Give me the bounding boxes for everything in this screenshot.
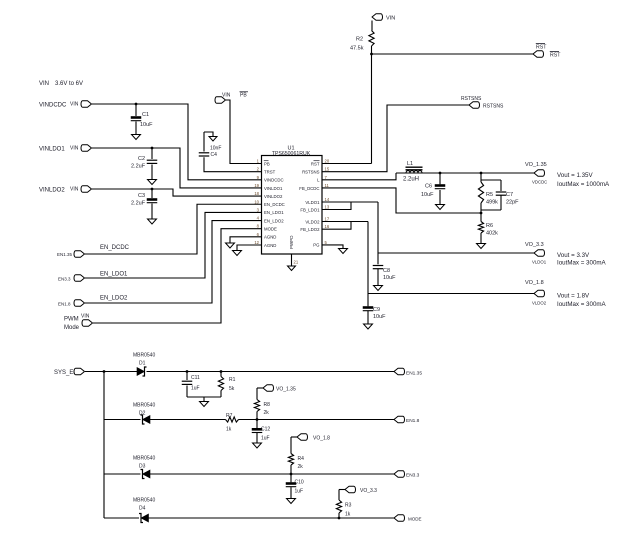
svg-text:R1: R1 <box>229 377 236 383</box>
svg-text:RST: RST <box>311 161 320 166</box>
svg-text:TPS650061RUK: TPS650061RUK <box>272 151 311 157</box>
svg-text:IoutMax = 1000mA: IoutMax = 1000mA <box>557 181 610 188</box>
svg-text:R5: R5 <box>486 192 493 198</box>
svg-text:13: 13 <box>325 205 330 210</box>
svg-text:EN1.8: EN1.8 <box>406 418 420 424</box>
svg-text:R7: R7 <box>226 413 233 419</box>
svg-text:Mode: Mode <box>64 325 80 331</box>
svg-text:VLDO1: VLDO1 <box>305 200 320 205</box>
svg-text:2k: 2k <box>264 410 270 416</box>
svg-text:499k: 499k <box>486 200 498 206</box>
svg-text:D1: D1 <box>139 361 146 367</box>
svg-text:VIN: VIN <box>70 146 79 152</box>
svg-text:EN3.3: EN3.3 <box>58 277 71 282</box>
svg-text:AGND: AGND <box>264 243 276 248</box>
svg-text:RST: RST <box>550 53 561 59</box>
svg-text:VO_1.35: VO_1.35 <box>525 162 547 168</box>
svg-text:R3: R3 <box>345 503 352 509</box>
svg-text:10uF: 10uF <box>421 192 434 198</box>
svg-text:R6: R6 <box>486 223 493 229</box>
svg-text:C11: C11 <box>191 375 200 381</box>
svg-text:11: 11 <box>325 183 330 188</box>
svg-text:2.2uF: 2.2uF <box>131 164 146 170</box>
svg-text:Vout = 1.8V: Vout = 1.8V <box>557 293 590 300</box>
svg-text:2.2uF: 2.2uF <box>131 201 146 207</box>
svg-text:D3: D3 <box>139 464 146 470</box>
svg-text:VIN: VIN <box>70 187 79 193</box>
svg-text:VIN: VIN <box>386 16 395 22</box>
svg-text:47.5k: 47.5k <box>350 46 364 52</box>
svg-text:1k: 1k <box>345 512 351 518</box>
svg-text:VINLDO1: VINLDO1 <box>39 147 65 153</box>
svg-text:EN_DCDC: EN_DCDC <box>100 245 130 251</box>
svg-text:VO_1.8: VO_1.8 <box>313 436 330 442</box>
svg-text:VLDO1: VLDO1 <box>532 260 547 265</box>
svg-text:VO_1.35: VO_1.35 <box>276 387 296 393</box>
svg-text:PWM: PWM <box>64 317 79 323</box>
svg-text:MBR0540: MBR0540 <box>133 456 155 462</box>
svg-text:Vout = 1.35V: Vout = 1.35V <box>557 172 593 179</box>
svg-text:VO_1.8: VO_1.8 <box>525 280 544 286</box>
svg-text:VLDO2: VLDO2 <box>532 301 547 306</box>
svg-text:L1: L1 <box>407 161 413 167</box>
svg-text:Vout = 3.3V: Vout = 3.3V <box>557 252 590 259</box>
svg-text:1k: 1k <box>226 427 232 433</box>
svg-text:RSTSNS: RSTSNS <box>302 169 320 174</box>
svg-text:VINLDO2: VINLDO2 <box>39 188 65 194</box>
svg-text:C6: C6 <box>425 184 432 190</box>
svg-text:VIN: VIN <box>39 81 49 87</box>
svg-text:EN1.35: EN1.35 <box>406 371 422 377</box>
svg-text:EN_LDO1: EN_LDO1 <box>100 272 128 278</box>
svg-text:10nF: 10nF <box>210 146 221 152</box>
svg-text:MBR0540: MBR0540 <box>133 353 155 359</box>
svg-text:RST: RST <box>536 45 547 51</box>
svg-text:VDCDC: VDCDC <box>532 180 547 185</box>
svg-text:20: 20 <box>325 159 330 164</box>
svg-text:C4: C4 <box>211 152 218 158</box>
svg-text:VINLDO1: VINLDO1 <box>264 186 283 191</box>
svg-text:RSTSNS: RSTSNS <box>483 104 504 110</box>
svg-text:1uF: 1uF <box>261 436 270 442</box>
svg-text:MODE: MODE <box>408 517 422 522</box>
svg-text:MBR0540: MBR0540 <box>133 403 155 409</box>
svg-text:PWPD: PWPD <box>289 235 294 249</box>
svg-text:C2: C2 <box>138 156 145 162</box>
svg-text:10: 10 <box>254 199 259 204</box>
svg-text:PB: PB <box>264 161 270 166</box>
svg-text:RSTSNS: RSTSNS <box>461 96 482 102</box>
svg-text:17: 17 <box>325 217 330 222</box>
svg-text:EN_DCDC: EN_DCDC <box>264 202 285 207</box>
svg-text:C9: C9 <box>373 307 380 313</box>
svg-text:19: 19 <box>254 183 259 188</box>
svg-text:10uF: 10uF <box>373 314 386 320</box>
svg-text:VIN: VIN <box>70 102 79 108</box>
svg-text:MBR0540: MBR0540 <box>133 498 155 504</box>
svg-text:VIN: VIN <box>81 314 90 320</box>
svg-text:2k: 2k <box>298 464 304 470</box>
svg-text:VO_3.3: VO_3.3 <box>525 242 544 248</box>
svg-text:C7: C7 <box>506 192 513 198</box>
svg-text:AGND: AGND <box>264 235 276 240</box>
svg-text:14: 14 <box>325 197 330 202</box>
svg-text:2.2uH: 2.2uH <box>403 177 419 183</box>
svg-text:D4: D4 <box>139 506 146 512</box>
svg-text:EN3.3: EN3.3 <box>406 473 420 479</box>
svg-text:R8: R8 <box>264 402 271 408</box>
svg-text:C1: C1 <box>142 112 149 118</box>
svg-text:402k: 402k <box>486 231 498 237</box>
svg-text:IoutMax = 300mA: IoutMax = 300mA <box>557 260 607 267</box>
svg-text:16: 16 <box>325 224 330 229</box>
svg-text:1uF: 1uF <box>295 489 304 495</box>
svg-text:12: 12 <box>254 240 259 245</box>
svg-text:FB_DCDC: FB_DCDC <box>299 186 319 191</box>
svg-text:TRST: TRST <box>264 169 276 174</box>
svg-text:C3: C3 <box>138 193 145 199</box>
svg-text:PG: PG <box>313 243 320 248</box>
svg-text:EN_LDO2: EN_LDO2 <box>264 218 284 223</box>
svg-text:FB_LDO2: FB_LDO2 <box>300 227 320 232</box>
svg-text:IoutMax = 300mA: IoutMax = 300mA <box>557 301 607 308</box>
svg-text:PB: PB <box>240 93 247 99</box>
svg-text:R2: R2 <box>356 37 363 43</box>
svg-text:VINDCDC: VINDCDC <box>264 178 284 183</box>
svg-text:VLDO2: VLDO2 <box>305 219 320 224</box>
svg-text:EN1.35: EN1.35 <box>57 252 73 257</box>
svg-text:21: 21 <box>294 260 299 265</box>
svg-text:VINLDO2: VINLDO2 <box>264 194 283 199</box>
svg-text:C10: C10 <box>295 480 304 486</box>
svg-text:EN1.8: EN1.8 <box>58 302 71 307</box>
svg-text:EN_LDO2: EN_LDO2 <box>100 296 128 302</box>
svg-text:3.6V to 6V: 3.6V to 6V <box>55 81 83 87</box>
svg-text:5k: 5k <box>229 386 235 392</box>
svg-text:10uF: 10uF <box>140 122 153 128</box>
svg-text:22pF: 22pF <box>506 200 519 206</box>
svg-text:MODE: MODE <box>264 227 277 232</box>
svg-text:VO_3.3: VO_3.3 <box>360 488 377 494</box>
svg-text:C12: C12 <box>261 427 270 433</box>
svg-text:VINDCDC: VINDCDC <box>39 103 67 109</box>
svg-text:10uF: 10uF <box>383 275 396 281</box>
svg-text:18: 18 <box>254 191 259 196</box>
svg-text:15: 15 <box>325 167 330 172</box>
svg-text:C8: C8 <box>383 268 390 274</box>
svg-text:FB_LDO1: FB_LDO1 <box>300 207 320 212</box>
svg-text:R4: R4 <box>298 456 305 462</box>
svg-text:1uF: 1uF <box>191 386 200 392</box>
svg-text:EN_LDO1: EN_LDO1 <box>264 210 284 215</box>
